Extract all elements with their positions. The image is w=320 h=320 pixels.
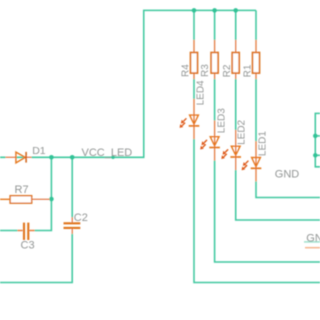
svg-text:LED3: LED3 [216,108,227,133]
svg-text:GND: GND [275,169,300,181]
svg-text:R3: R3 [200,64,211,77]
svg-text:LED2: LED2 [237,119,248,144]
svg-text:R2: R2 [222,64,233,77]
svg-text:LED1: LED1 [258,131,269,156]
svg-text:R7: R7 [15,184,29,196]
svg-text:R1: R1 [243,64,254,77]
svg-text:LED4: LED4 [195,80,206,105]
svg-text:D1: D1 [32,145,46,157]
svg-text:R4: R4 [180,64,191,77]
svg-text:C3: C3 [21,239,35,251]
svg-text:GND: GND [306,233,320,245]
svg-text:VCC_LED: VCC_LED [82,147,133,159]
svg-text:C2: C2 [74,212,88,224]
